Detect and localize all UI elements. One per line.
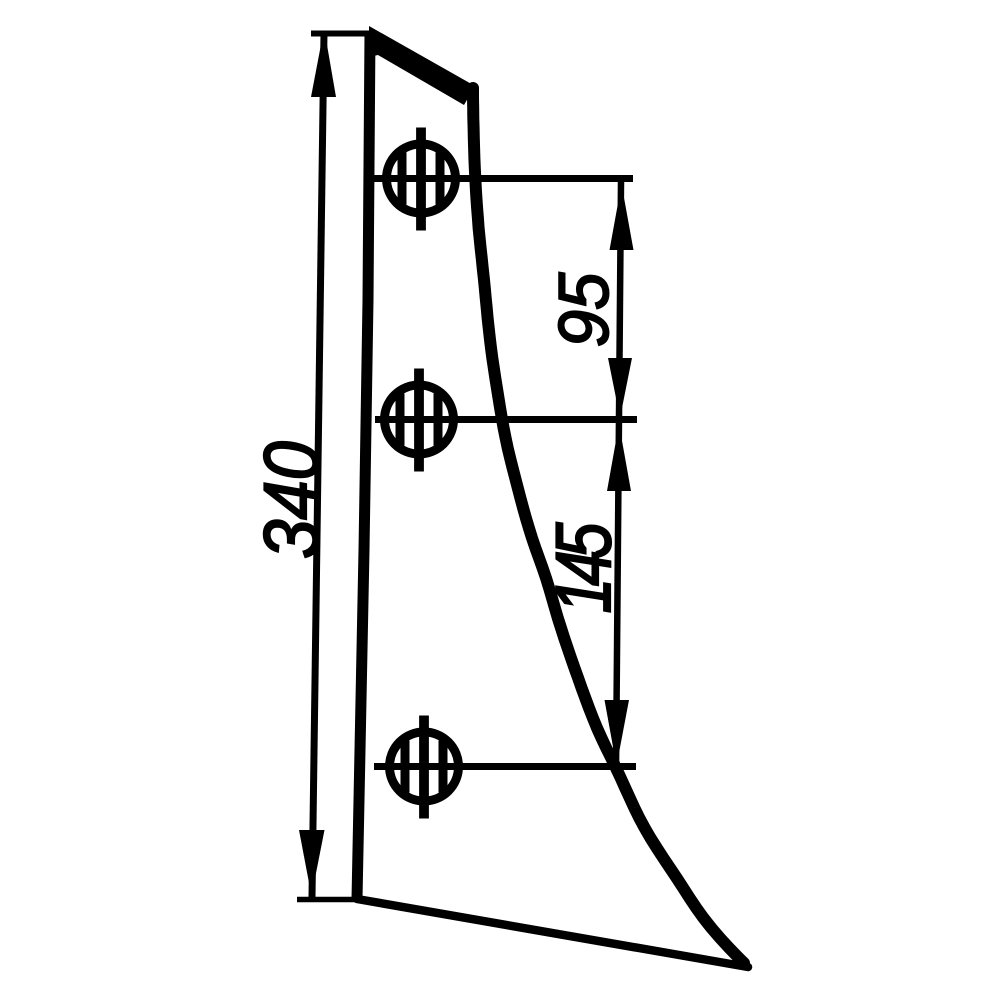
svg-text:340: 340 [248,441,335,558]
hole H1 centerline horizontal [372,175,633,182]
svg-text:95: 95 [545,272,624,347]
hole H3 centerline vertical [419,716,429,819]
hole H1 circle [387,144,456,213]
extension tick top [311,31,374,37]
arrowhead 340 bottom (down) [299,830,325,896]
arrowhead 145 bottom (down) [605,700,630,766]
hole H3 circle [390,732,459,801]
arrowhead 340 top (up) [311,42,336,97]
hole H2 circle [385,385,454,454]
part outline: bottom edge [357,899,748,967]
part outline: top edge [369,26,475,105]
part outline: right curved edge [473,88,744,963]
arrowhead 145 top (up) [607,424,631,491]
arrowhead 95 top (up) [610,184,634,250]
hole H2 centerline vertical [414,369,424,472]
hole H3 centerline horizontal [374,763,636,770]
dimension line 95-145 (right vertical) [616,182,621,769]
part outline: left edge [357,32,370,899]
hole H3 square-hole chords [405,741,443,793]
svg-text:145: 145 [540,522,627,613]
hole H1 centerline vertical [416,128,426,231]
hole H1 square-hole chords [402,153,440,205]
hole H2 square-hole chords [400,394,438,446]
arrowhead 95 bottom (down) [608,358,632,418]
dimension line 340 (left vertical) [312,33,324,897]
extension tick bottom [297,897,357,903]
hole H2 centerline horizontal [375,416,637,423]
